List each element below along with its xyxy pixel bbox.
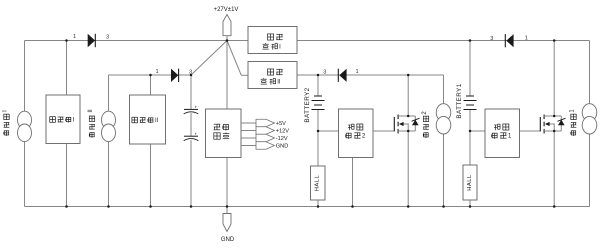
junction gnd bus / charge line2	[442, 205, 445, 208]
wire shunt II drop	[150, 75, 152, 95]
wire top +27V bus	[25, 40, 249, 42]
junction top bus / battery1	[469, 39, 472, 42]
power connector +27V	[223, 15, 231, 36]
wire secondary supply drop	[226, 41, 228, 110]
svg-text:GND: GND	[276, 144, 288, 150]
svg-text:3: 3	[106, 35, 109, 41]
svg-text:HALL: HALL	[315, 174, 321, 191]
output port -12V	[241, 137, 256, 139]
junction gnd bus / GND	[226, 205, 229, 208]
svg-text:II: II	[277, 80, 281, 86]
junction top bus / shunt I	[65, 39, 68, 42]
wire battery2 branch	[317, 75, 319, 96]
discharge module II box 放电模块II	[248, 62, 297, 89]
discharge module I box 放电模块I	[248, 27, 297, 54]
svg-text:II: II	[155, 118, 159, 124]
wire capacitor branch	[190, 75, 192, 109]
wire charge ctrl 2 bottom	[352, 158, 354, 207]
svg-text:1: 1	[355, 69, 358, 75]
svg-text:1: 1	[73, 34, 76, 40]
charge control box 充电控制2	[339, 109, 374, 158]
wire discharge module II feed	[297, 74, 444, 76]
junction gnd bus / feeder II	[107, 205, 110, 208]
battery BATTERY1	[466, 95, 474, 97]
svg-text:+: +	[195, 105, 198, 110]
ground connector GND	[226, 207, 228, 214]
capacitor C1	[184, 108, 198, 110]
current source 供电器II	[102, 111, 116, 129]
junction gnd bus / hall1	[469, 205, 472, 208]
wire ground bus	[25, 206, 590, 208]
junction gnd bus / shunt I	[65, 205, 68, 208]
junction gnd bus / mosfet2 source	[407, 205, 410, 208]
output port +5V	[241, 122, 256, 124]
diode D3	[337, 69, 339, 82]
diode D4	[504, 34, 506, 47]
output port +12V	[241, 130, 256, 132]
wire battery2 to charge ctrl 2	[318, 130, 339, 132]
svg-text:HALL: HALL	[467, 174, 473, 191]
junction +27V node	[226, 39, 229, 42]
resistor HALL 2	[311, 166, 326, 200]
svg-text:1: 1	[525, 35, 528, 41]
svg-text:+12V: +12V	[276, 129, 289, 135]
svg-text:3: 3	[323, 70, 326, 76]
junction gnd bus / capacitors	[190, 205, 193, 208]
secondary power box 二次电源	[206, 109, 242, 158]
current source 充电线2	[436, 104, 451, 122]
wire mosfet2 source	[407, 131, 409, 207]
svg-text:+27V±1V: +27V±1V	[214, 7, 239, 13]
svg-text:+5V: +5V	[276, 121, 286, 127]
svg-text:BATTERY2: BATTERY2	[304, 87, 311, 122]
junction branch / battery2	[317, 74, 320, 77]
junction battery2 neg node	[317, 130, 320, 133]
current source 充电线1	[582, 104, 597, 122]
wire fan to module II	[227, 41, 241, 76]
junction top bus / mosfet1 drain	[553, 39, 556, 42]
shunt box 分流器II	[130, 95, 166, 144]
wire battery1 branch	[469, 41, 471, 97]
svg-text:+: +	[195, 131, 198, 136]
wire mosfet1 source	[553, 131, 555, 207]
wire feeder II branch line	[109, 74, 192, 76]
wire left feeder drop	[24, 41, 26, 207]
svg-text:1: 1	[155, 69, 158, 75]
current source 供电器I	[18, 111, 32, 129]
svg-text:-12V: -12V	[276, 136, 288, 142]
wire shunt I drop	[66, 41, 68, 96]
battery BATTERY2	[314, 95, 322, 97]
capacitor C2	[184, 135, 198, 137]
wire mosfet2 drain	[407, 75, 409, 116]
svg-text:BATTERY1: BATTERY1	[456, 83, 463, 118]
wire mosfet1 drain	[553, 41, 555, 117]
wire gate	[520, 130, 541, 132]
diode D1	[88, 34, 95, 47]
junction branch / shunt II	[149, 74, 152, 77]
junction gnd bus / ctrl2	[351, 205, 354, 208]
wire battery1 to charge ctrl 1	[470, 130, 485, 132]
wire gate	[373, 130, 394, 132]
diode D2	[171, 69, 178, 82]
resistor HALL 1	[463, 165, 477, 200]
junction gnd bus / hall2	[317, 205, 320, 208]
shunt box 分流器I	[46, 95, 80, 144]
junction branch / capacitors	[190, 74, 193, 77]
svg-text:GND: GND	[221, 237, 235, 243]
charge control box 充电控制1	[485, 109, 520, 158]
junction battery1 neg node	[469, 130, 472, 133]
wire fan to cap node	[191, 41, 227, 76]
svg-text:II: II	[88, 109, 94, 113]
junction gnd bus / shunt II	[149, 205, 152, 208]
wire right edge drop	[589, 41, 591, 207]
junction branch / mosfet2 drain	[407, 74, 410, 77]
output port GND	[241, 145, 256, 147]
junction gnd bus / mosfet1 source	[553, 205, 556, 208]
svg-text:3: 3	[490, 36, 493, 42]
